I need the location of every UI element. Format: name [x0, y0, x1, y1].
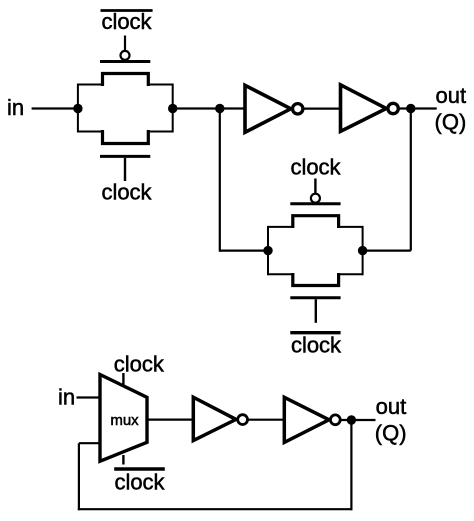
- wire TG1 pmos right: [148, 84, 172, 86]
- svg-text:clock: clock: [291, 332, 342, 357]
- svg-text:out: out: [376, 394, 407, 419]
- wire to TG2 left: [220, 250, 268, 252]
- svg-text:in: in: [7, 95, 24, 120]
- wire feedback to mux: [79, 442, 101, 444]
- wire TG2 nmos left: [268, 273, 293, 275]
- TG1 left terminal wire: [77, 84, 79, 133]
- wire clockbar to bubble: [124, 36, 126, 52]
- wire TG1 pmos left: [78, 84, 103, 86]
- wire gate to clock label: [124, 158, 126, 181]
- wire U4 to out: [341, 419, 376, 421]
- wire mux out to U3: [147, 419, 194, 421]
- clockbar overline: [101, 9, 153, 12]
- wire to TG2 right: [363, 250, 411, 252]
- wire TG2 pmos right: [339, 226, 363, 228]
- node in dot: [73, 104, 82, 113]
- TG2 left terminal wire: [267, 226, 269, 275]
- wire feedback down: [350, 420, 352, 510]
- wire TG1 nmos left: [78, 131, 103, 133]
- wire U2 to out: [399, 107, 437, 109]
- wire U3 to U4: [248, 419, 284, 421]
- wire feedback up: [78, 443, 80, 510]
- node TG2 left dot: [263, 246, 272, 255]
- wire TG2 nmos right: [339, 273, 363, 275]
- inverter U1: [245, 85, 303, 132]
- svg-text:mux: mux: [110, 412, 139, 429]
- wire mux bottom to clockbar: [122, 455, 124, 465]
- wire U1 to U2: [304, 107, 341, 109]
- wire clock to mux top: [122, 373, 124, 387]
- gate line TG1 nmos: [100, 155, 150, 158]
- wire feedback bottom: [78, 508, 353, 510]
- svg-text:in: in: [58, 385, 75, 410]
- TG2 right terminal wire: [362, 226, 364, 275]
- gate line TG1 pmos: [100, 60, 150, 63]
- wire gate to clockbar label: [315, 299, 317, 323]
- TG1 nmos channel staple: [103, 130, 149, 144]
- wire in to TG1: [32, 107, 78, 109]
- svg-text:(Q): (Q): [435, 109, 467, 134]
- clockbar overline TG2: [290, 331, 340, 334]
- svg-text:clock: clock: [101, 180, 152, 205]
- gate line TG2 nmos: [290, 296, 340, 299]
- TG2 pmos channel staple: [293, 216, 339, 228]
- gate line TG2 pmos: [290, 202, 340, 205]
- bubble TG1 pmos: [121, 51, 130, 60]
- svg-text:(Q): (Q): [375, 421, 407, 446]
- inverter U2: [341, 85, 399, 132]
- node out dot: [406, 104, 415, 113]
- wire TG1 to inverter U1: [173, 107, 244, 109]
- clockbar overline mux: [114, 467, 165, 470]
- mux U5 trapezoid: [100, 375, 147, 462]
- wire in to mux: [77, 396, 102, 398]
- wire node A down to TG2: [219, 109, 221, 252]
- wire clock to bubble: [314, 179, 316, 194]
- inverter U3: [193, 397, 247, 440]
- svg-text:out: out: [436, 83, 467, 108]
- node TG1 output dot: [168, 104, 177, 113]
- wire out node down: [410, 109, 412, 251]
- bubble TG2 pmos: [311, 194, 320, 203]
- TG1 pmos channel staple: [103, 74, 149, 87]
- transmission gate TG2 (feedback): [268, 155, 363, 358]
- node A dot: [215, 104, 224, 113]
- svg-text:clock: clock: [101, 9, 152, 34]
- svg-text:clock: clock: [114, 469, 165, 494]
- wire TG1 nmos right: [148, 131, 172, 133]
- svg-text:clock: clock: [290, 155, 341, 180]
- TG2 nmos channel staple: [293, 273, 339, 286]
- wire TG2 pmos left: [268, 226, 293, 228]
- inverter U4: [284, 397, 340, 442]
- svg-text:clock: clock: [114, 352, 165, 377]
- TG1 right terminal wire: [172, 84, 174, 133]
- node out dot (mux circuit): [347, 415, 356, 424]
- transmission gate TG1: [78, 9, 173, 205]
- node TG2 right dot: [358, 246, 367, 255]
